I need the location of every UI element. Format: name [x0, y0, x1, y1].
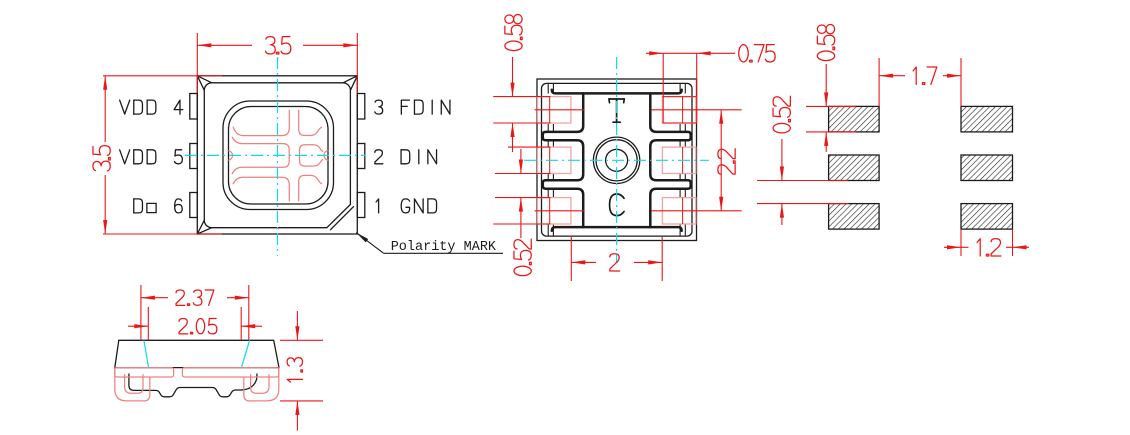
centerline vertical top view — [277, 57, 279, 256]
extension lines bottom view — [493, 96, 550, 98]
pin left — [190, 193, 198, 218]
land pad left — [829, 204, 880, 230]
dimension 0.75 — [662, 53, 664, 123]
label VDD 4 — [120, 100, 183, 114]
mold step line — [684, 189, 686, 198]
mold step line — [547, 83, 549, 93]
pin right — [357, 94, 365, 120]
pad pink right — [662, 198, 695, 224]
dim text 0.58 bottom view — [505, 15, 522, 51]
corner fan top-left — [197, 76, 212, 91]
top view package outer body — [197, 76, 357, 234]
lens outer — [223, 101, 334, 210]
pad red line right — [682, 198, 684, 224]
pad red line left — [549, 147, 551, 173]
mold step line — [547, 174, 549, 181]
label DO 6 — [134, 199, 182, 213]
letter C — [610, 194, 624, 216]
top view package inner outline with polarity chamfer — [204, 83, 350, 228]
dimension 3.5 top — [196, 33, 198, 93]
side view bottom inner profile — [129, 374, 257, 397]
mold step line — [547, 224, 549, 236]
land pad left — [829, 155, 880, 181]
dimension 0.58 land — [806, 105, 856, 107]
mold step line — [552, 224, 554, 236]
label 1 GND — [376, 199, 436, 213]
dim text 1.2 — [977, 239, 1001, 256]
bottom view outer box — [537, 79, 697, 241]
mold step line — [684, 224, 686, 236]
dimension 1.3 — [280, 339, 323, 341]
land pad right — [961, 204, 1013, 230]
dim text 0.52 bottom view — [514, 239, 531, 276]
mold step line — [552, 140, 554, 147]
centerline vertical bottom view — [616, 57, 618, 263]
dimension 2.05 — [147, 307, 149, 340]
mold step line — [552, 174, 554, 181]
label 2 DIN — [375, 150, 437, 164]
lens inner — [229, 107, 329, 205]
mold step line — [547, 140, 549, 147]
pad boundary thick outline — [552, 90, 682, 94]
dim text 1.3 — [287, 358, 302, 382]
mold step line — [679, 174, 681, 181]
mold step line — [547, 124, 549, 132]
lead left inner — [125, 375, 143, 394]
dimension 0.52 land — [757, 180, 848, 182]
dimension 2.37 — [140, 285, 142, 340]
pin left — [190, 144, 198, 169]
mold step line — [552, 124, 554, 132]
dim text 0.58 land — [817, 25, 834, 61]
polarity mark chamfer second line — [330, 207, 353, 230]
draft tick right — [241, 340, 249, 367]
dim text 2.05 — [179, 319, 217, 334]
letter T — [609, 99, 624, 122]
pad pink left — [538, 198, 571, 224]
mold step line — [684, 174, 686, 181]
label VDD 5 — [120, 150, 183, 164]
mold step line — [679, 83, 681, 93]
pad red line left — [549, 198, 551, 224]
dimension 1.2 — [960, 229, 962, 256]
pin right — [357, 193, 365, 218]
mold step line — [552, 189, 554, 198]
corner fan top-right — [343, 76, 357, 91]
dimension 0.58 bottom view — [512, 57, 514, 97]
centerline horizontal top view — [185, 154, 366, 156]
mold step line — [679, 224, 681, 236]
pin left — [190, 94, 198, 120]
pin right — [357, 144, 365, 169]
mold step line — [684, 140, 686, 147]
pad pink left — [538, 147, 571, 173]
pad red line right — [682, 147, 684, 173]
dimension 2 — [570, 237, 572, 281]
dim text 3.5 left — [93, 146, 110, 171]
thermal pad circle inner — [606, 149, 628, 171]
dim text 2 — [610, 254, 620, 271]
land pad right — [961, 106, 1013, 131]
bottom view inner outline — [542, 83, 693, 236]
pad red line left — [549, 97, 551, 123]
polarity mark leader — [356, 233, 384, 254]
ext pad3 bottom — [662, 122, 696, 124]
pad pink right — [662, 147, 695, 173]
dim text 3.5 top — [266, 37, 291, 54]
centerline horizontal bottom view — [524, 159, 709, 161]
pad red line right — [682, 97, 684, 123]
land pad right — [961, 155, 1013, 181]
dimension 3.5 left — [103, 75, 222, 77]
mold step line — [684, 124, 686, 132]
dimension 1.7 — [878, 58, 880, 106]
thermal pad circle outer — [593, 137, 639, 183]
lead left outer — [115, 368, 150, 401]
side slot left — [115, 368, 174, 377]
ext pad3 top — [662, 96, 696, 98]
dimension 2.2 — [720, 110, 722, 211]
dim text 2.2 — [718, 149, 735, 174]
dim text 2.37 — [176, 290, 214, 305]
corner fan bottom-left — [197, 220, 212, 234]
dimension 0.52 bottom view — [520, 149, 522, 174]
lens internal red pattern — [233, 110, 289, 135]
label 3 FDIN — [375, 100, 450, 114]
side view body — [115, 340, 279, 367]
dim text 1.7 — [913, 67, 937, 84]
mold step line — [679, 124, 681, 132]
draft tick left — [144, 340, 149, 367]
thermal pad circle mid — [596, 140, 637, 181]
lead right inner — [251, 375, 269, 394]
dim text 0.75 — [739, 45, 775, 62]
mold step line — [684, 83, 686, 93]
svg-text:Polarity MARK: Polarity MARK — [391, 240, 497, 255]
mold step line — [547, 189, 549, 198]
dim text 0.52 land — [773, 96, 790, 133]
side slot right — [182, 368, 278, 377]
mold step line — [552, 83, 554, 93]
lead right outer — [244, 368, 279, 401]
pad pink left — [538, 97, 571, 123]
mold step line — [679, 189, 681, 198]
pad pink right — [662, 97, 695, 123]
mold step line — [679, 140, 681, 147]
land pad left — [829, 106, 880, 131]
